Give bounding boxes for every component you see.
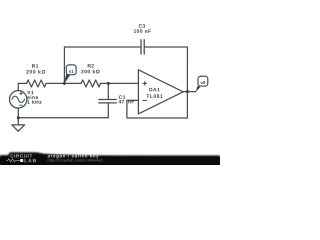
svg-text:v0: v0 — [200, 80, 206, 85]
ground rail — [18, 117, 108, 119]
junction node C1 top — [107, 82, 110, 85]
junction output — [186, 90, 189, 93]
junction ground — [17, 116, 20, 119]
resistor R1 — [26, 80, 46, 87]
wire R2 to op-amp + input — [100, 82, 138, 84]
capacitor C1 — [99, 98, 117, 100]
junction node v1 — [63, 82, 66, 85]
svg-text:47: 47 — [118, 99, 124, 105]
capacitor C3 — [140, 40, 142, 54]
wire R1 to R2 — [46, 82, 81, 84]
wire C3 right to output — [144, 47, 187, 92]
svg-text:200 kΩ: 200 kΩ — [81, 69, 100, 75]
svg-text:1 kHz: 1 kHz — [27, 100, 42, 106]
V1 minus mark — [19, 104, 22, 106]
svg-text:TL081: TL081 — [146, 94, 163, 100]
svg-text:100 nF: 100 nF — [133, 29, 151, 35]
voltage source V1 — [9, 91, 26, 108]
svg-text:LAB: LAB — [24, 158, 37, 164]
node flag v1 — [64, 65, 76, 84]
svg-text:200 kΩ: 200 kΩ — [26, 70, 46, 76]
svg-text:nF: nF — [128, 99, 135, 105]
capacitor C1 lead bottom — [107, 103, 109, 118]
logo square — [20, 159, 23, 162]
node flag v0 — [196, 76, 208, 92]
svg-text:OA1: OA1 — [149, 87, 160, 93]
logo zigzag — [6, 159, 17, 162]
ground — [12, 125, 25, 131]
wire output — [183, 91, 196, 93]
op-amp OA1 — [138, 70, 183, 114]
svg-text:v1: v1 — [69, 69, 75, 74]
wire V1 bottom — [17, 108, 19, 125]
wire V1 top to R1 — [18, 83, 26, 90]
capacitor C1 lead top — [107, 83, 109, 99]
labels — [26, 24, 163, 106]
svg-text:CIRCUIT: CIRCUIT — [10, 154, 33, 159]
svg-text:http://circuitlab.com/c/u/6kv4: http://circuitlab.com/c/u/6kv4q5 — [47, 158, 102, 162]
resistor R2 — [81, 80, 100, 87]
wire top C3 loop — [64, 47, 141, 83]
op-amp plus mark — [19, 81, 147, 105]
footer bar — [0, 152, 220, 165]
wire feedback minus input — [127, 92, 188, 118]
op-amp minus mark — [142, 99, 147, 101]
V1 plus mark — [19, 93, 22, 95]
